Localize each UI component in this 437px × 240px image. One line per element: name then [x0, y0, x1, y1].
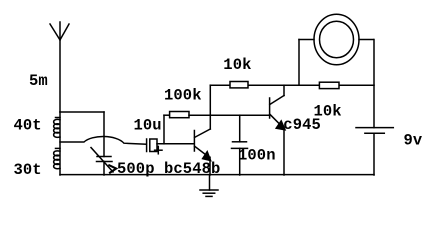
- svg-text:100k: 100k: [164, 86, 202, 104]
- svg-text:30t: 30t: [14, 161, 42, 179]
- svg-text:100n: 100n: [238, 146, 276, 164]
- svg-text:5m: 5m: [29, 72, 48, 90]
- svg-text:40t: 40t: [14, 117, 42, 135]
- svg-text:500p bc548b: 500p bc548b: [117, 160, 220, 178]
- svg-text:9v: 9v: [404, 132, 423, 150]
- svg-text:c945: c945: [283, 116, 321, 134]
- svg-text:10u: 10u: [134, 117, 162, 135]
- svg-text:10k: 10k: [223, 56, 251, 74]
